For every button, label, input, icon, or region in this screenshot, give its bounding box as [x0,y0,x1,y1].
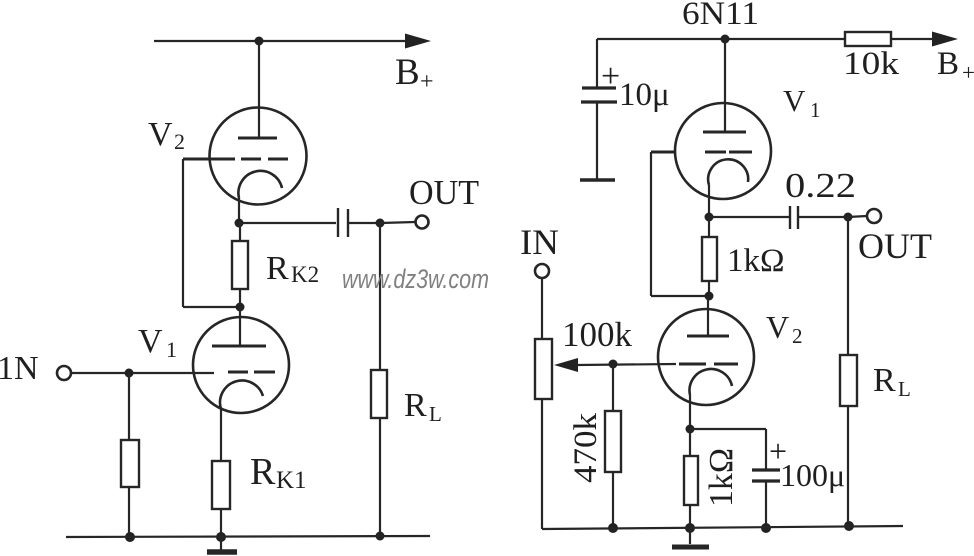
node RL right bottom [844,521,854,531]
node V2 cathode [686,425,695,434]
ground left [207,537,237,552]
svg-text:OUT: OUT [858,226,932,266]
wire 100u to rail [765,481,767,528]
wire node to V2 plate [707,296,709,336]
svg-text:L: L [898,377,911,401]
V2 grid [183,158,288,161]
svg-text:100μ: 100μ [780,457,845,493]
V2 right plate [687,335,729,338]
label 470k [568,412,604,483]
svg-text:10k: 10k [843,46,900,82]
wire to OUT terminal [380,222,415,223]
ground 10u [580,178,615,182]
wire 470k to rail [612,472,614,528]
wire rail to 10u cap [596,39,598,88]
pot wiper arrow [554,358,578,372]
wire out node to RL right [847,217,849,355]
label RK2 [266,250,319,287]
node top rail right [721,35,730,44]
svg-text:V: V [138,323,163,360]
svg-text:L: L [429,402,442,426]
svg-text:B: B [937,46,959,82]
label 10k [843,46,900,82]
wire cathode to capacitor [239,222,336,224]
wire pot bottom to rail [541,399,543,529]
node 1k bottom [705,292,714,301]
svg-text:K2: K2 [291,262,319,287]
V1 right cathode [708,159,748,185]
label 100k [562,315,633,354]
watermark [342,264,489,294]
wire ground rail right [542,526,903,529]
wire V1 right cathode lead [708,185,710,217]
capacitor coupling left [338,208,348,237]
tube V2 envelope [210,108,307,205]
wire 10u to ground stub [596,102,598,180]
svg-text:1N: 1N [0,350,39,387]
wire B+ rail left [154,40,410,42]
wire grid resistor to rail [128,487,130,537]
svg-text:0.22: 0.22 [785,166,856,205]
tube V1 right envelope [675,103,771,199]
node input junction [125,369,134,378]
svg-text:2: 2 [174,129,185,154]
node 100u bottom [761,523,771,533]
terminal IN left [57,366,71,380]
wire input to grid [71,372,214,374]
potentiometer 100k body [535,339,552,399]
svg-text:1kΩ: 1kΩ [727,243,785,279]
V2 cathode [238,171,282,198]
node grid resistor bottom [125,532,135,542]
wire B+ rail right [597,38,845,40]
svg-text:K1: K1 [276,467,307,494]
resistor RK2 [232,241,248,289]
wire cathode to 1k [708,217,710,237]
svg-text:R: R [873,362,896,399]
svg-text:R: R [404,387,427,424]
wire 1k bottom to rail [689,505,691,528]
svg-text:1: 1 [166,337,177,362]
resistor 1k top [702,237,717,281]
arrow B+ rail left [405,34,431,49]
wire V1 right plate lead [724,39,726,132]
label 6N11 [682,0,759,32]
wire V1 cathode lead [220,409,222,461]
label RL left [404,387,442,426]
svg-text:+: + [601,58,620,95]
svg-text:R: R [266,250,289,287]
V1 right grid [651,151,752,154]
label B+ right [937,46,974,85]
wire V2 grid branch horizontal [183,306,240,308]
label V1 right [783,83,821,122]
label OUT right [858,226,932,266]
label RK1 [250,451,307,494]
wire RL to ground rail [379,418,381,536]
svg-text:+: + [420,69,434,95]
terminal IN right [535,264,549,278]
wire IN to pot [541,278,543,339]
node RK1 bottom [216,532,226,542]
wire cathode to RK2 [239,223,241,241]
capacitor 100u [752,470,780,481]
node top rail left [255,37,264,46]
wire cathode node to 1k bottom [689,429,691,456]
wire cathode node to 100u [690,428,766,430]
tube V2 right envelope [658,309,754,405]
wire 1k to node [708,281,710,296]
label 100u [780,457,845,493]
V1 plate [212,345,266,348]
wire cathode node to 0.22 cap [709,216,790,218]
ground right [672,528,709,547]
arrow B+ right [932,32,958,47]
svg-text:OUT: OUT [409,173,479,212]
label 10u [619,77,670,113]
wire capacitor to out node [347,222,380,224]
resistor grid left (unlabeled) [121,440,139,487]
label + 10u [601,58,620,95]
label 1kOhm top [727,243,785,279]
svg-text:+: + [962,60,974,85]
svg-text:V: V [783,83,806,118]
resistor 470k [605,411,621,472]
svg-text:B: B [395,52,420,93]
wire ground rail left [66,536,430,537]
capacitor 10u [581,88,617,102]
V2 plate [238,137,277,140]
svg-text:R: R [250,451,276,493]
wire V1 grid feedback horizontal [651,295,709,297]
node RL bottom left [376,532,385,541]
svg-text:V: V [766,309,789,345]
V1 grid [228,371,275,374]
svg-text:1kΩ: 1kΩ [703,448,740,507]
capacitor 0.22 [790,206,798,229]
wire V2 right cathode lead [689,395,691,429]
terminal OUT left [416,216,429,229]
label V2 [148,116,185,154]
node OUT right [844,213,853,222]
V2 right cathode [690,369,732,395]
label 1kOhm bottom [703,448,740,507]
wire 100u top lead [765,429,767,470]
svg-text:www.dz3w.com: www.dz3w.com [342,264,489,294]
wire wiper node down to 470k [612,364,614,411]
wire V2 grid branch vertical [182,159,184,307]
wire V1 plate lead [239,307,241,346]
svg-text:V: V [148,116,173,153]
label V2 right [766,309,803,348]
wire to OUT terminal right [848,216,867,217]
svg-text:10μ: 10μ [619,77,670,113]
node V1 right cathode [705,213,714,222]
label IN right [520,222,559,262]
label OUT left [409,173,479,212]
resistor RL left [371,370,387,418]
label RL right [873,362,911,401]
wire OUT node to RL [379,223,381,370]
node 470k bottom [608,523,618,533]
resistor 1k bottom [684,456,698,505]
resistor RK1 [212,461,230,509]
resistor RL right [840,355,857,406]
svg-text:2: 2 [792,324,803,348]
node OUT left [376,219,385,228]
svg-text:6N11: 6N11 [682,0,759,32]
node 1k bottom rail [685,523,695,533]
node wiper junction [609,360,618,369]
wire V1 grid feedback vertical [650,152,652,296]
svg-text:470k: 470k [568,412,604,483]
wire 0.22 to out node [798,216,848,218]
svg-text:100k: 100k [562,315,633,354]
wire RK1 to rail [220,509,222,537]
wire plate V2 [258,41,260,138]
svg-text:IN: IN [520,222,559,262]
wire RK2 to node [239,289,241,307]
svg-text:1: 1 [810,98,821,122]
V2 right grid [679,363,738,366]
resistor 10k [845,32,891,46]
wire 10k to arrow [891,38,934,40]
node V2 cathode [235,219,244,228]
V1 cathode [220,381,263,409]
wire V2 cathode lead [238,198,240,223]
label 0.22 [785,166,856,205]
node RK2 bottom [236,303,245,312]
label 1N [0,350,39,387]
label B+ left [395,52,434,95]
V1 right plate [703,131,746,134]
tube V1 envelope [193,317,289,413]
label + 100u [769,433,787,469]
label V1 left [138,323,177,362]
terminal OUT right [867,209,881,223]
wire wiper to grid [578,364,676,365]
wire RL right to rail [847,406,849,526]
wire input node down [128,373,130,440]
